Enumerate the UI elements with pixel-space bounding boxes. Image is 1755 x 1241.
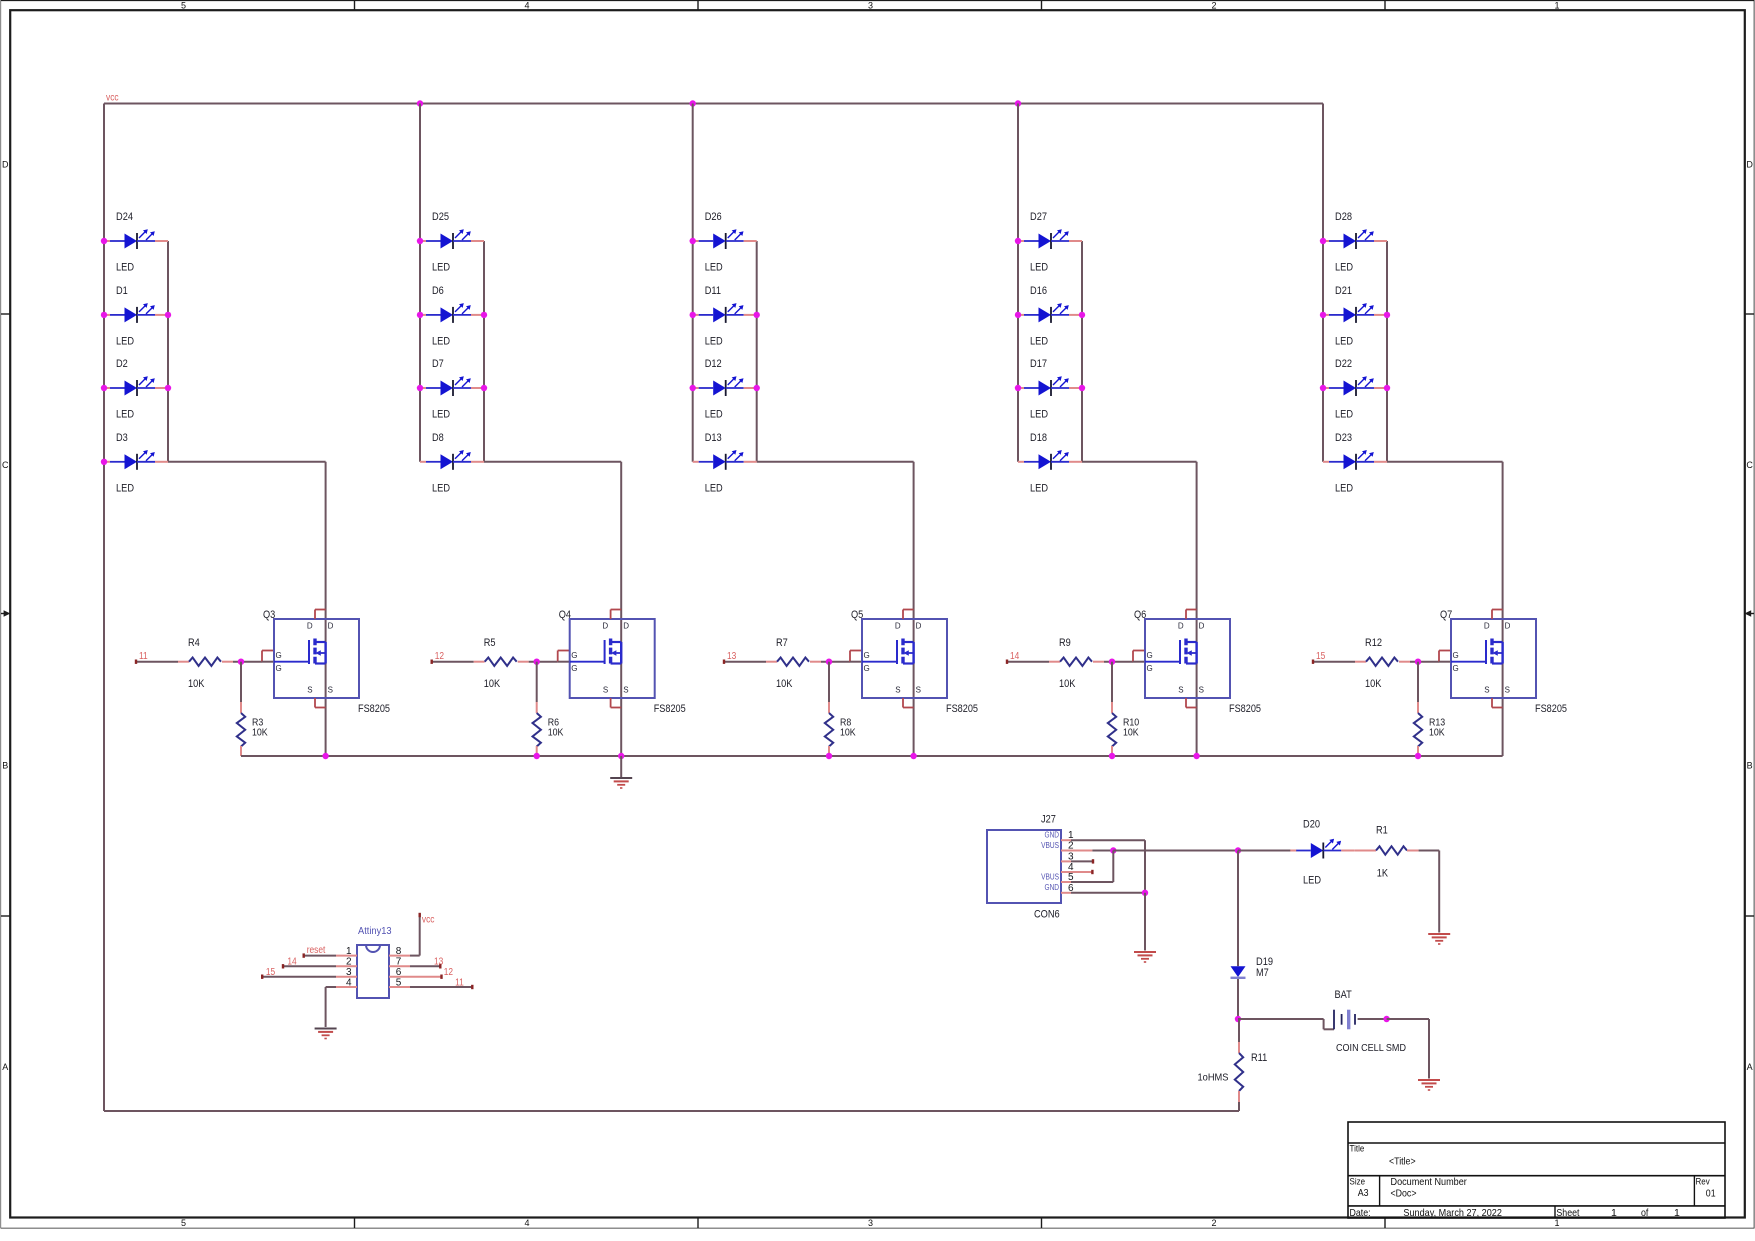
svg-text:1: 1 — [346, 946, 352, 957]
svg-text:vcc: vcc — [106, 93, 119, 104]
svg-text:LED: LED — [1335, 482, 1353, 494]
svg-text:D22: D22 — [1335, 358, 1352, 370]
svg-text:3: 3 — [868, 0, 873, 10]
svg-text:G: G — [1147, 664, 1153, 673]
svg-text:D: D — [895, 622, 901, 631]
svg-text:Attiny13: Attiny13 — [358, 926, 392, 937]
svg-text:A: A — [2, 1062, 8, 1072]
svg-text:G: G — [864, 664, 870, 673]
svg-text:D: D — [1178, 622, 1184, 631]
svg-text:LED: LED — [705, 482, 723, 494]
svg-text:5: 5 — [181, 0, 186, 10]
svg-text:A3: A3 — [1358, 1187, 1369, 1199]
svg-text:D20: D20 — [1303, 819, 1320, 831]
svg-text:10K: 10K — [840, 727, 856, 739]
svg-text:G: G — [571, 664, 577, 673]
svg-text:D: D — [623, 622, 629, 631]
svg-text:D2: D2 — [116, 358, 128, 370]
svg-text:VBUS: VBUS — [1041, 841, 1059, 850]
svg-text:R7: R7 — [776, 637, 788, 649]
svg-text:S: S — [1199, 686, 1204, 695]
svg-text:7: 7 — [396, 957, 402, 968]
svg-text:R12: R12 — [1365, 637, 1382, 649]
svg-text:LED: LED — [1335, 335, 1353, 347]
svg-text:LED: LED — [1030, 482, 1048, 494]
svg-text:1: 1 — [1611, 1207, 1617, 1219]
svg-text:D27: D27 — [1030, 211, 1047, 223]
svg-text:S: S — [603, 686, 608, 695]
svg-text:Size: Size — [1350, 1176, 1366, 1187]
svg-text:10K: 10K — [484, 678, 501, 690]
svg-text:COIN CELL SMD: COIN CELL SMD — [1336, 1042, 1406, 1054]
svg-text:FS8205: FS8205 — [946, 703, 978, 715]
svg-text:FS8205: FS8205 — [1535, 703, 1567, 715]
svg-text:LED: LED — [1303, 875, 1321, 887]
svg-text:1: 1 — [1674, 1207, 1680, 1219]
svg-text:11: 11 — [139, 651, 148, 662]
svg-text:5: 5 — [396, 977, 402, 988]
svg-text:Q6: Q6 — [1134, 609, 1146, 621]
svg-text:D: D — [1746, 160, 1753, 170]
svg-text:D6: D6 — [432, 285, 444, 297]
svg-text:LED: LED — [432, 482, 450, 494]
svg-text:G: G — [1453, 651, 1459, 660]
svg-text:Q7: Q7 — [1440, 609, 1452, 621]
svg-text:D: D — [1484, 622, 1490, 631]
svg-text:D13: D13 — [705, 432, 722, 444]
svg-text:Q4: Q4 — [559, 609, 571, 621]
svg-text:LED: LED — [116, 335, 134, 347]
svg-text:B: B — [1747, 761, 1753, 771]
svg-text:D1: D1 — [116, 285, 128, 297]
svg-text:D16: D16 — [1030, 285, 1047, 297]
svg-text:B: B — [2, 761, 8, 771]
svg-text:13: 13 — [727, 651, 737, 662]
svg-text:12: 12 — [435, 651, 445, 662]
svg-text:14: 14 — [287, 956, 297, 967]
svg-text:D: D — [1505, 622, 1511, 631]
svg-text:Date:: Date: — [1350, 1207, 1371, 1219]
svg-text:D18: D18 — [1030, 432, 1047, 444]
svg-text:J27: J27 — [1041, 814, 1056, 826]
svg-text:D: D — [916, 622, 922, 631]
svg-text:D: D — [307, 622, 313, 631]
svg-text:LED: LED — [1335, 262, 1353, 274]
svg-text:GND: GND — [1045, 831, 1060, 840]
svg-text:FS8205: FS8205 — [654, 703, 686, 715]
svg-text:2: 2 — [1211, 0, 1216, 10]
svg-text:R5: R5 — [484, 637, 496, 649]
svg-text:R4: R4 — [188, 637, 200, 649]
svg-text:LED: LED — [705, 262, 723, 274]
svg-text:10K: 10K — [1365, 678, 1382, 690]
svg-text:<Title>: <Title> — [1389, 1156, 1416, 1168]
svg-text:LED: LED — [116, 262, 134, 274]
svg-text:10K: 10K — [1123, 727, 1139, 739]
svg-text:Q3: Q3 — [263, 609, 275, 621]
svg-text:LED: LED — [116, 409, 134, 421]
svg-text:D: D — [602, 622, 608, 631]
svg-text:D3: D3 — [116, 432, 128, 444]
svg-text:M7: M7 — [1256, 967, 1269, 979]
svg-text:of: of — [1641, 1207, 1648, 1219]
svg-text:D26: D26 — [705, 211, 722, 223]
svg-text:D28: D28 — [1335, 211, 1352, 223]
svg-text:S: S — [1178, 686, 1183, 695]
svg-text:D11: D11 — [705, 285, 721, 297]
svg-text:<Doc>: <Doc> — [1391, 1187, 1417, 1199]
svg-text:15: 15 — [1316, 651, 1326, 662]
svg-text:D12: D12 — [705, 358, 722, 370]
svg-text:S: S — [623, 686, 628, 695]
svg-text:VBUS: VBUS — [1041, 872, 1059, 881]
svg-text:LED: LED — [432, 409, 450, 421]
svg-text:C: C — [1746, 460, 1753, 470]
svg-text:D8: D8 — [432, 432, 444, 444]
svg-text:CON6: CON6 — [1034, 909, 1060, 921]
svg-text:2: 2 — [1211, 1218, 1216, 1228]
svg-text:LED: LED — [116, 482, 134, 494]
svg-text:Document Number: Document Number — [1391, 1176, 1468, 1188]
svg-text:LED: LED — [1030, 262, 1048, 274]
svg-text:FS8205: FS8205 — [358, 703, 390, 715]
svg-text:1K: 1K — [1377, 868, 1389, 880]
svg-text:Q5: Q5 — [851, 609, 863, 621]
svg-text:D21: D21 — [1335, 285, 1352, 297]
svg-text:GND: GND — [1045, 883, 1060, 892]
svg-text:D23: D23 — [1335, 432, 1352, 444]
svg-text:G: G — [1453, 664, 1459, 673]
svg-text:S: S — [916, 686, 921, 695]
svg-text:13: 13 — [434, 956, 444, 967]
svg-text:Title: Title — [1350, 1144, 1365, 1155]
svg-text:BAT: BAT — [1335, 989, 1353, 1001]
svg-text:14: 14 — [1010, 651, 1020, 662]
svg-text:Rev: Rev — [1696, 1177, 1710, 1188]
svg-text:LED: LED — [432, 262, 450, 274]
svg-text:G: G — [571, 651, 577, 660]
svg-text:LED: LED — [432, 335, 450, 347]
svg-text:1oHMS: 1oHMS — [1198, 1072, 1229, 1084]
svg-text:10K: 10K — [188, 678, 205, 690]
svg-text:10K: 10K — [252, 727, 268, 739]
svg-text:A: A — [1747, 1062, 1753, 1072]
svg-text:vcc: vcc — [422, 915, 435, 926]
svg-text:D17: D17 — [1030, 358, 1047, 370]
svg-text:R9: R9 — [1059, 637, 1071, 649]
svg-text:D: D — [1199, 622, 1205, 631]
svg-text:LED: LED — [1030, 335, 1048, 347]
svg-text:LED: LED — [1335, 409, 1353, 421]
svg-text:1: 1 — [1554, 1218, 1559, 1228]
svg-text:Sunday, March 27, 2022: Sunday, March 27, 2022 — [1403, 1207, 1502, 1219]
svg-text:S: S — [307, 686, 312, 695]
svg-text:G: G — [276, 651, 282, 660]
svg-text:R1: R1 — [1376, 825, 1388, 837]
svg-text:D7: D7 — [432, 358, 444, 370]
svg-text:G: G — [864, 651, 870, 660]
svg-text:2: 2 — [346, 957, 352, 968]
svg-text:4: 4 — [524, 0, 529, 10]
svg-text:D24: D24 — [116, 211, 133, 223]
svg-text:10K: 10K — [776, 678, 793, 690]
svg-text:S: S — [1484, 686, 1489, 695]
svg-text:10K: 10K — [548, 727, 564, 739]
svg-text:15: 15 — [266, 967, 276, 978]
svg-text:D: D — [328, 622, 334, 631]
svg-text:G: G — [1147, 651, 1153, 660]
svg-text:LED: LED — [1030, 409, 1048, 421]
svg-text:4: 4 — [524, 1218, 529, 1228]
svg-text:3: 3 — [868, 1218, 873, 1228]
svg-text:C: C — [2, 460, 9, 470]
svg-text:LED: LED — [705, 409, 723, 421]
svg-text:Sheet: Sheet — [1556, 1207, 1579, 1219]
svg-text:4: 4 — [346, 977, 352, 988]
svg-text:01: 01 — [1706, 1187, 1716, 1199]
svg-text:10K: 10K — [1059, 678, 1076, 690]
svg-text:1: 1 — [1554, 0, 1559, 10]
svg-text:S: S — [895, 686, 900, 695]
svg-text:reset: reset — [307, 945, 326, 956]
svg-text:FS8205: FS8205 — [1229, 703, 1261, 715]
svg-text:5: 5 — [181, 1218, 186, 1228]
svg-text:12: 12 — [444, 967, 454, 978]
svg-text:11: 11 — [455, 977, 464, 988]
svg-text:D: D — [2, 160, 9, 170]
svg-text:R11: R11 — [1251, 1052, 1267, 1064]
svg-text:D25: D25 — [432, 211, 449, 223]
svg-text:S: S — [1505, 686, 1510, 695]
svg-text:G: G — [276, 664, 282, 673]
svg-text:8: 8 — [396, 946, 402, 957]
svg-text:LED: LED — [705, 335, 723, 347]
svg-text:10K: 10K — [1429, 727, 1445, 739]
svg-text:S: S — [328, 686, 333, 695]
